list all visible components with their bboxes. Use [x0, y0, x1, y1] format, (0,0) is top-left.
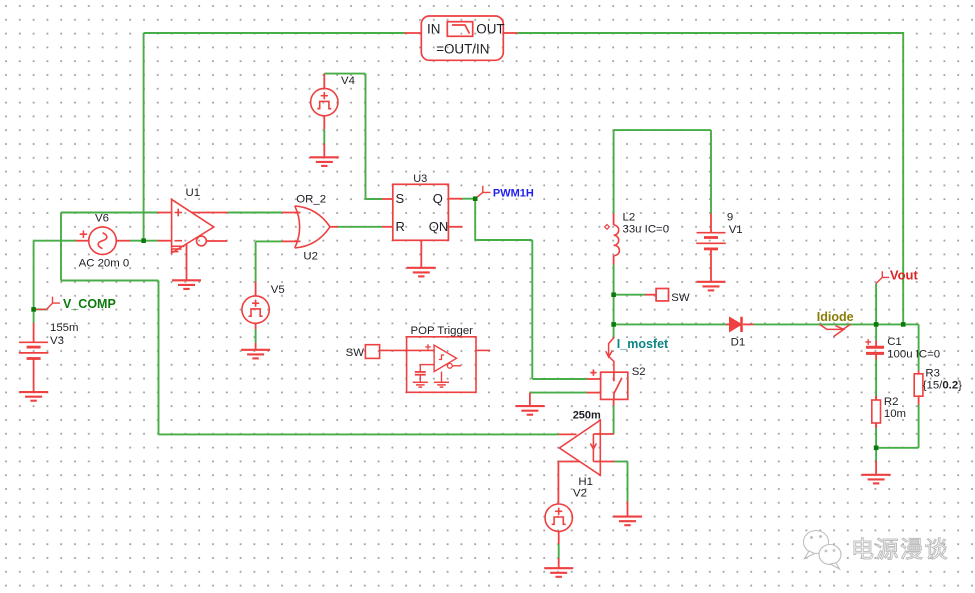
svg-text:POP Trigger: POP Trigger [411, 325, 474, 337]
svg-text:155m: 155m [50, 322, 79, 334]
svg-text:U1: U1 [186, 187, 201, 199]
svg-text:AC 20m 0: AC 20m 0 [79, 258, 130, 270]
svg-text:V_COMP: V_COMP [63, 297, 116, 311]
svg-text:V2: V2 [573, 488, 587, 500]
svg-text:Idiode: Idiode [817, 310, 854, 324]
svg-text:电源漫谈: 电源漫谈 [851, 536, 949, 562]
svg-text:H1: H1 [578, 476, 593, 488]
svg-text:V4: V4 [341, 75, 355, 87]
svg-text:33u IC=0: 33u IC=0 [623, 224, 670, 236]
svg-text:OUT: OUT [476, 22, 504, 37]
svg-text:QN: QN [429, 219, 449, 234]
svg-text:V3: V3 [50, 335, 64, 347]
svg-text:U2: U2 [303, 251, 318, 263]
svg-text:I_mosfet: I_mosfet [617, 337, 669, 351]
svg-text:PWM1H: PWM1H [493, 187, 534, 199]
svg-text:V1: V1 [729, 224, 743, 236]
svg-text:SW: SW [671, 292, 690, 304]
svg-text:R2: R2 [884, 396, 899, 408]
svg-text:Vout: Vout [890, 268, 919, 283]
svg-text:IN: IN [427, 22, 440, 37]
svg-text:Q: Q [433, 191, 443, 206]
svg-text:100u IC=0: 100u IC=0 [887, 349, 940, 361]
svg-text:D1: D1 [731, 337, 746, 349]
svg-text:9: 9 [727, 212, 733, 224]
svg-text:C1: C1 [887, 336, 902, 348]
svg-text:U3: U3 [413, 173, 427, 185]
svg-text:L2: L2 [623, 212, 636, 224]
svg-text:=OUT/IN: =OUT/IN [436, 42, 489, 57]
svg-text:V5: V5 [271, 284, 285, 296]
svg-text:R3: R3 [925, 368, 940, 380]
svg-text:R: R [396, 219, 405, 234]
svg-text:S2: S2 [632, 366, 646, 378]
svg-text:{15/0.2}: {15/0.2} [923, 380, 962, 392]
svg-text:S: S [396, 191, 405, 206]
svg-text:V6: V6 [95, 213, 109, 225]
svg-text:OR_2: OR_2 [296, 194, 326, 206]
svg-text:250m: 250m [573, 409, 601, 421]
svg-text:10m: 10m [884, 408, 906, 420]
svg-text:SW: SW [346, 347, 365, 359]
